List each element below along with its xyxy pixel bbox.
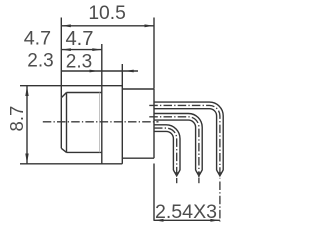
svg-text:4.7: 4.7 bbox=[24, 28, 51, 50]
body top edge bbox=[122, 88, 154, 90]
bottom dimension line 2.54X3 bbox=[154, 219, 220, 221]
pin 2 tip bbox=[196, 170, 203, 176]
arrow top of 8.7 bbox=[25, 86, 28, 96]
extension line left (front face, x=61.3) bbox=[60, 18, 62, 98]
svg-text:8.7: 8.7 bbox=[6, 106, 27, 132]
svg-text:2.54X3: 2.54X3 bbox=[155, 201, 217, 222]
pin 1 (inner) tube outer edge bbox=[154, 125, 180, 170]
arrow bottom of 8.7 bbox=[25, 154, 28, 164]
thin step line on barrel bbox=[99, 93, 101, 153]
8.7 top extension line + flange top edge bbox=[20, 85, 122, 87]
pin 3 tube inner edge bbox=[154, 109, 217, 171]
flange left edge bbox=[101, 86, 103, 164]
barrel chamfer top diagonal bbox=[61, 93, 66, 98]
arrow outside-left of 2.3 (points right at flange-left) bbox=[90, 70, 99, 73]
pin 2 centerline stub below tip bbox=[198, 178, 200, 183]
8.7 bottom extension line + flange bottom edge bbox=[20, 163, 122, 165]
main axis centerline bbox=[43, 121, 159, 123]
arrow left of 4.7 bbox=[61, 48, 71, 51]
arrow outside-right of 2.3 (points left at flange-right) bbox=[125, 70, 134, 73]
dimension line 10.5 bbox=[61, 25, 154, 27]
pin 1 centerline bbox=[154, 128, 177, 177]
pin 3 centerline bbox=[149, 105, 220, 178]
svg-text:10.5: 10.5 bbox=[88, 3, 126, 24]
flange right edge bbox=[121, 86, 123, 164]
dimension line 2.3 bbox=[61, 70, 138, 72]
barrel chamfer bottom diagonal bbox=[61, 148, 66, 152]
extension line right (body rear, x=154) bbox=[153, 18, 155, 89]
body bottom edge bbox=[122, 157, 154, 159]
arrow left of 2.54X3 bbox=[154, 219, 164, 222]
pin 1 centerline stub below tip bbox=[176, 178, 178, 183]
pin 3 (outer) tube outer edge bbox=[154, 102, 223, 170]
arrow right of 10.5 bbox=[145, 24, 155, 27]
pin 3 tip bbox=[217, 170, 224, 176]
arrow left of 10.5 bbox=[61, 24, 71, 27]
pin 2 tube inner edge bbox=[154, 120, 196, 170]
extension line flange-left (x=101.8) bbox=[101, 44, 103, 85]
arrow right of 2.54X3 bbox=[210, 219, 220, 222]
body right edge bbox=[153, 89, 155, 158]
pin 3 centerline extension to bottom dim bbox=[219, 182, 221, 222]
dimension line 8.7 (vertical) bbox=[26, 86, 28, 164]
bottom dimension left extension line bbox=[153, 164, 155, 221]
pin 2 centerline bbox=[149, 117, 199, 178]
extension line flange-right (x=122.3) bbox=[121, 64, 123, 87]
svg-text:2.3: 2.3 bbox=[27, 51, 53, 72]
dimension line 4.7 bbox=[61, 49, 102, 51]
pin 1 tip bbox=[173, 170, 180, 176]
svg-text:2.3: 2.3 bbox=[66, 51, 92, 72]
svg-text:4.7: 4.7 bbox=[65, 28, 93, 50]
barrel chamfer edge line bbox=[66, 93, 68, 153]
barrel bottom edge bbox=[67, 151, 102, 153]
connector barrel front face bbox=[60, 98, 62, 149]
barrel top edge bbox=[67, 92, 102, 94]
pin 1 tube inner edge bbox=[154, 131, 173, 170]
arrow right of 4.7 bbox=[92, 48, 102, 51]
pin 2 (middle) tube outer edge bbox=[154, 114, 202, 171]
